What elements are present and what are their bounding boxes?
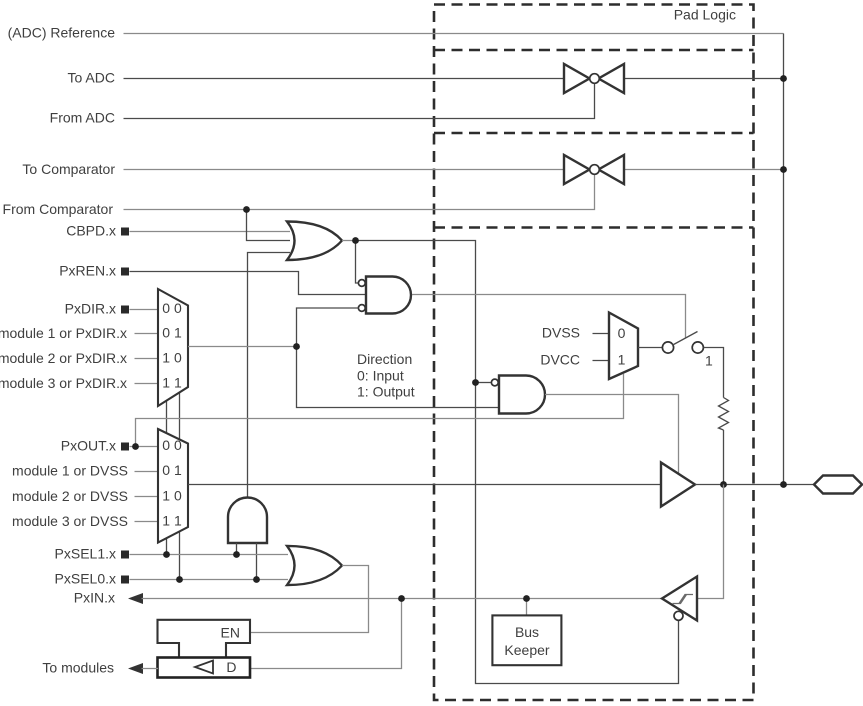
wire module1 dir stub — [135, 333, 159, 335]
dashed divider ADC section bottom / comparator top — [434, 132, 754, 135]
svg-text:From ADC: From ADC — [50, 110, 115, 126]
svg-text:1: Output: 1: Output — [357, 384, 415, 400]
svg-text:PxOUT.x: PxOUT.x — [61, 438, 116, 454]
svg-text:Pad Logic: Pad Logic — [674, 7, 736, 23]
transmission gate U1 (ADC) — [564, 64, 624, 93]
wire U6 input stub from PxSEL1 — [236, 543, 238, 555]
svg-text:To ADC: To ADC — [68, 70, 115, 86]
node PxSEL1 to U6 — [233, 551, 240, 558]
svg-text:PxDIR.x: PxDIR.x — [65, 301, 116, 317]
node From Comparator junction — [243, 206, 250, 213]
register bit marker PxREN.x — [121, 268, 129, 276]
arrowhead To modules — [128, 663, 143, 674]
wire From Comparator branch to OR gate middle input — [247, 210, 291, 241]
register bit marker PxOUT.x — [121, 443, 129, 451]
svg-text:D: D — [226, 659, 236, 675]
svg-text:module 3 or PxDIR.x: module 3 or PxDIR.x — [0, 375, 127, 391]
node PxOUT junction — [132, 443, 139, 450]
wire PxOUT.x to mux M2 — [130, 446, 159, 448]
schmitt trigger U9 (input buffer) — [662, 577, 697, 621]
wire U7 output to EN latch — [250, 566, 369, 633]
wire switch right contact to resistor — [704, 348, 724, 398]
register bit marker PxSEL1.x — [121, 551, 129, 559]
node bus keeper tap — [523, 595, 530, 602]
resistor R1 (pullup/pulldown) — [719, 398, 729, 431]
wire pad line from buffer to pad — [695, 484, 815, 486]
node OR U3 output junction — [352, 237, 359, 244]
wire U4 output to pull switch lever — [412, 295, 686, 338]
wire PxSEL0.x to OR gate U7 — [130, 579, 289, 581]
and-gate U5 (output driver enable) — [499, 376, 545, 414]
wire module3 out stub — [135, 521, 159, 523]
register bit marker PxDIR.x — [121, 306, 129, 314]
wire To ADC into pad logic — [124, 78, 565, 80]
node pad line resistor junction — [720, 481, 727, 488]
svg-text:PxSEL1.x: PxSEL1.x — [55, 546, 116, 562]
wire PxSEL1.x to OR gate U7 — [130, 554, 289, 556]
svg-text:1 1: 1 1 — [162, 374, 182, 390]
wire PxSEL AND output up to OR gate lower input — [248, 253, 291, 498]
svg-text:PxREN.x: PxREN.x — [59, 263, 116, 279]
wire module3 dir stub — [135, 383, 159, 385]
wire OR U3 output down to AND U4 top bubble — [356, 241, 359, 284]
wire (ADC) Reference — [124, 33, 784, 35]
wire bus keeper stub — [526, 599, 528, 616]
svg-text:PxSEL0.x: PxSEL0.x — [55, 571, 116, 587]
node direction junction — [293, 343, 300, 350]
wire DVSS stub — [593, 333, 610, 335]
svg-text:From Comparator: From Comparator — [3, 201, 114, 217]
bubble U5 top input — [491, 379, 498, 386]
node PxSEL0 to U6 — [253, 576, 260, 583]
or-gate U3 (CBPD / comparator / sel) — [287, 222, 342, 261]
transmission gate U2 (Comparator) — [564, 155, 624, 184]
svg-text:DVSS: DVSS — [542, 325, 580, 341]
svg-text:0 1: 0 1 — [162, 462, 182, 478]
svg-text:(ADC) Reference: (ADC) Reference — [8, 25, 116, 41]
wire into U5 top bubble from OR line — [476, 382, 492, 384]
Pad Logic dashed box outer frame — [434, 5, 754, 701]
node PxIN to D latch — [398, 595, 405, 602]
wire From Comparator to transmission gate center — [124, 175, 595, 210]
switch S1 contact left — [662, 342, 673, 353]
svg-text:module 1 or DVSS: module 1 or DVSS — [12, 463, 128, 479]
D latch clock triangle — [195, 661, 213, 674]
EN latch box — [158, 620, 251, 658]
svg-text:Bus: Bus — [515, 624, 539, 640]
wire resistor to pad line — [723, 430, 725, 485]
arrowhead PxIN.x — [128, 593, 143, 604]
wire OR U3 output — [342, 240, 356, 242]
bubble schmitt enable — [674, 611, 683, 620]
wire mux M3 output to switch — [638, 347, 663, 349]
svg-text:Direction: Direction — [357, 351, 412, 367]
dashed divider comparator bottom / main pad section top — [434, 226, 754, 229]
node PxSEL1 to mux select — [163, 551, 170, 558]
bubble U4 top input — [358, 280, 365, 287]
wire CBPD.x to OR gate input — [130, 231, 291, 233]
wire DVCC stub — [593, 360, 610, 362]
wire module2 out stub — [135, 496, 159, 498]
svg-text:0 1: 0 1 — [162, 324, 182, 340]
wire PxIN branch down to D latch input — [250, 599, 402, 669]
wire To modules from D latch — [142, 668, 159, 670]
svg-text:To Comparator: To Comparator — [22, 161, 115, 177]
schmitt hysteresis symbol — [673, 595, 694, 604]
wire PxIN.x from schmitt trigger output — [142, 598, 663, 600]
svg-text:module 3 or DVSS: module 3 or DVSS — [12, 513, 128, 529]
wire mux M2 output to output buffer (pad data line) — [188, 484, 661, 486]
register bit marker CBPD.x — [121, 228, 129, 236]
node To ADC rail junction — [780, 75, 787, 82]
node U5 input junction — [472, 379, 479, 386]
mux M3 (pull resistor DVSS/DVCC select) — [609, 313, 638, 380]
output buffer U8 (tri-state driver) — [661, 463, 695, 507]
wire OR U3 output right and down to schmitt enable — [356, 241, 679, 684]
wire schmitt input from pad line — [697, 485, 724, 599]
node pad line analog rail junction — [780, 481, 787, 488]
wire right analog rail — [783, 34, 785, 485]
wire PxREN.x to AND gate middle input — [130, 272, 367, 295]
svg-text:0 0: 0 0 — [162, 437, 182, 453]
svg-text:module 2 or PxDIR.x: module 2 or PxDIR.x — [0, 350, 127, 366]
or-gate U7 (PxSEL latch enable) — [287, 546, 342, 585]
svg-text:0: 0 — [618, 325, 626, 341]
and-gate U6 (PxSEL1 and PxSEL0), vertical — [228, 498, 267, 544]
wire module1 out stub — [135, 471, 159, 473]
dashed divider ADC section top — [434, 49, 754, 52]
switch S1 contact right — [692, 342, 703, 353]
register bit marker PxSEL0.x — [121, 576, 129, 584]
svg-text:1: 1 — [705, 353, 713, 369]
svg-text:1: 1 — [618, 351, 626, 367]
svg-text:To modules: To modules — [42, 660, 114, 676]
wire mux M3 select from PxOUT — [136, 374, 624, 447]
svg-text:EN: EN — [221, 625, 240, 641]
svg-text:module 1 or PxDIR.x: module 1 or PxDIR.x — [0, 325, 127, 341]
wire To Comparator right of transmission gate — [624, 169, 784, 171]
wire module2 dir stub — [135, 358, 159, 360]
svg-text:Keeper: Keeper — [504, 642, 549, 658]
wire direction node down to U5 lower input — [297, 347, 500, 408]
svg-text:1 0: 1 0 — [162, 349, 182, 365]
wire mux M1 output — [188, 346, 297, 348]
pad hexagon — [814, 476, 862, 494]
switch S1 lever — [673, 332, 698, 346]
wire U6 input stub from PxSEL0 — [256, 543, 258, 580]
svg-text:CBPD.x: CBPD.x — [66, 223, 116, 239]
bubble U4 bottom input — [358, 305, 365, 312]
mux M1 (PxDIR direction select) — [158, 289, 188, 406]
svg-text:DVCC: DVCC — [540, 352, 580, 368]
D latch box — [158, 658, 251, 678]
Bus Keeper box — [492, 615, 561, 665]
wire To Comparator into pad logic — [124, 169, 565, 171]
svg-text:module 2 or DVSS: module 2 or DVSS — [12, 488, 128, 504]
wire mux select verticals from PxSEL1/PxSEL0 — [166, 401, 168, 555]
node PxSEL0 to mux select — [176, 576, 183, 583]
wire From ADC to transmission gate center — [124, 84, 595, 119]
svg-text:PxIN.x: PxIN.x — [74, 590, 115, 606]
svg-text:1 1: 1 1 — [162, 512, 182, 528]
and-gate U4 (PxREN enable) — [366, 277, 411, 314]
wire To ADC right of transmission gate — [624, 78, 784, 80]
svg-text:0: Input: 0: Input — [357, 368, 404, 384]
node To Comparator rail junction — [780, 166, 787, 173]
svg-text:0 0: 0 0 — [162, 300, 182, 316]
mux M2 (PxOUT output select) — [158, 429, 188, 543]
wire U5 output to output buffer enable — [545, 395, 679, 474]
wire PxDIR.x to direction mux — [130, 309, 159, 311]
wire direction node up to U4 bottom bubble — [297, 308, 359, 347]
svg-text:1 0: 1 0 — [162, 487, 182, 503]
